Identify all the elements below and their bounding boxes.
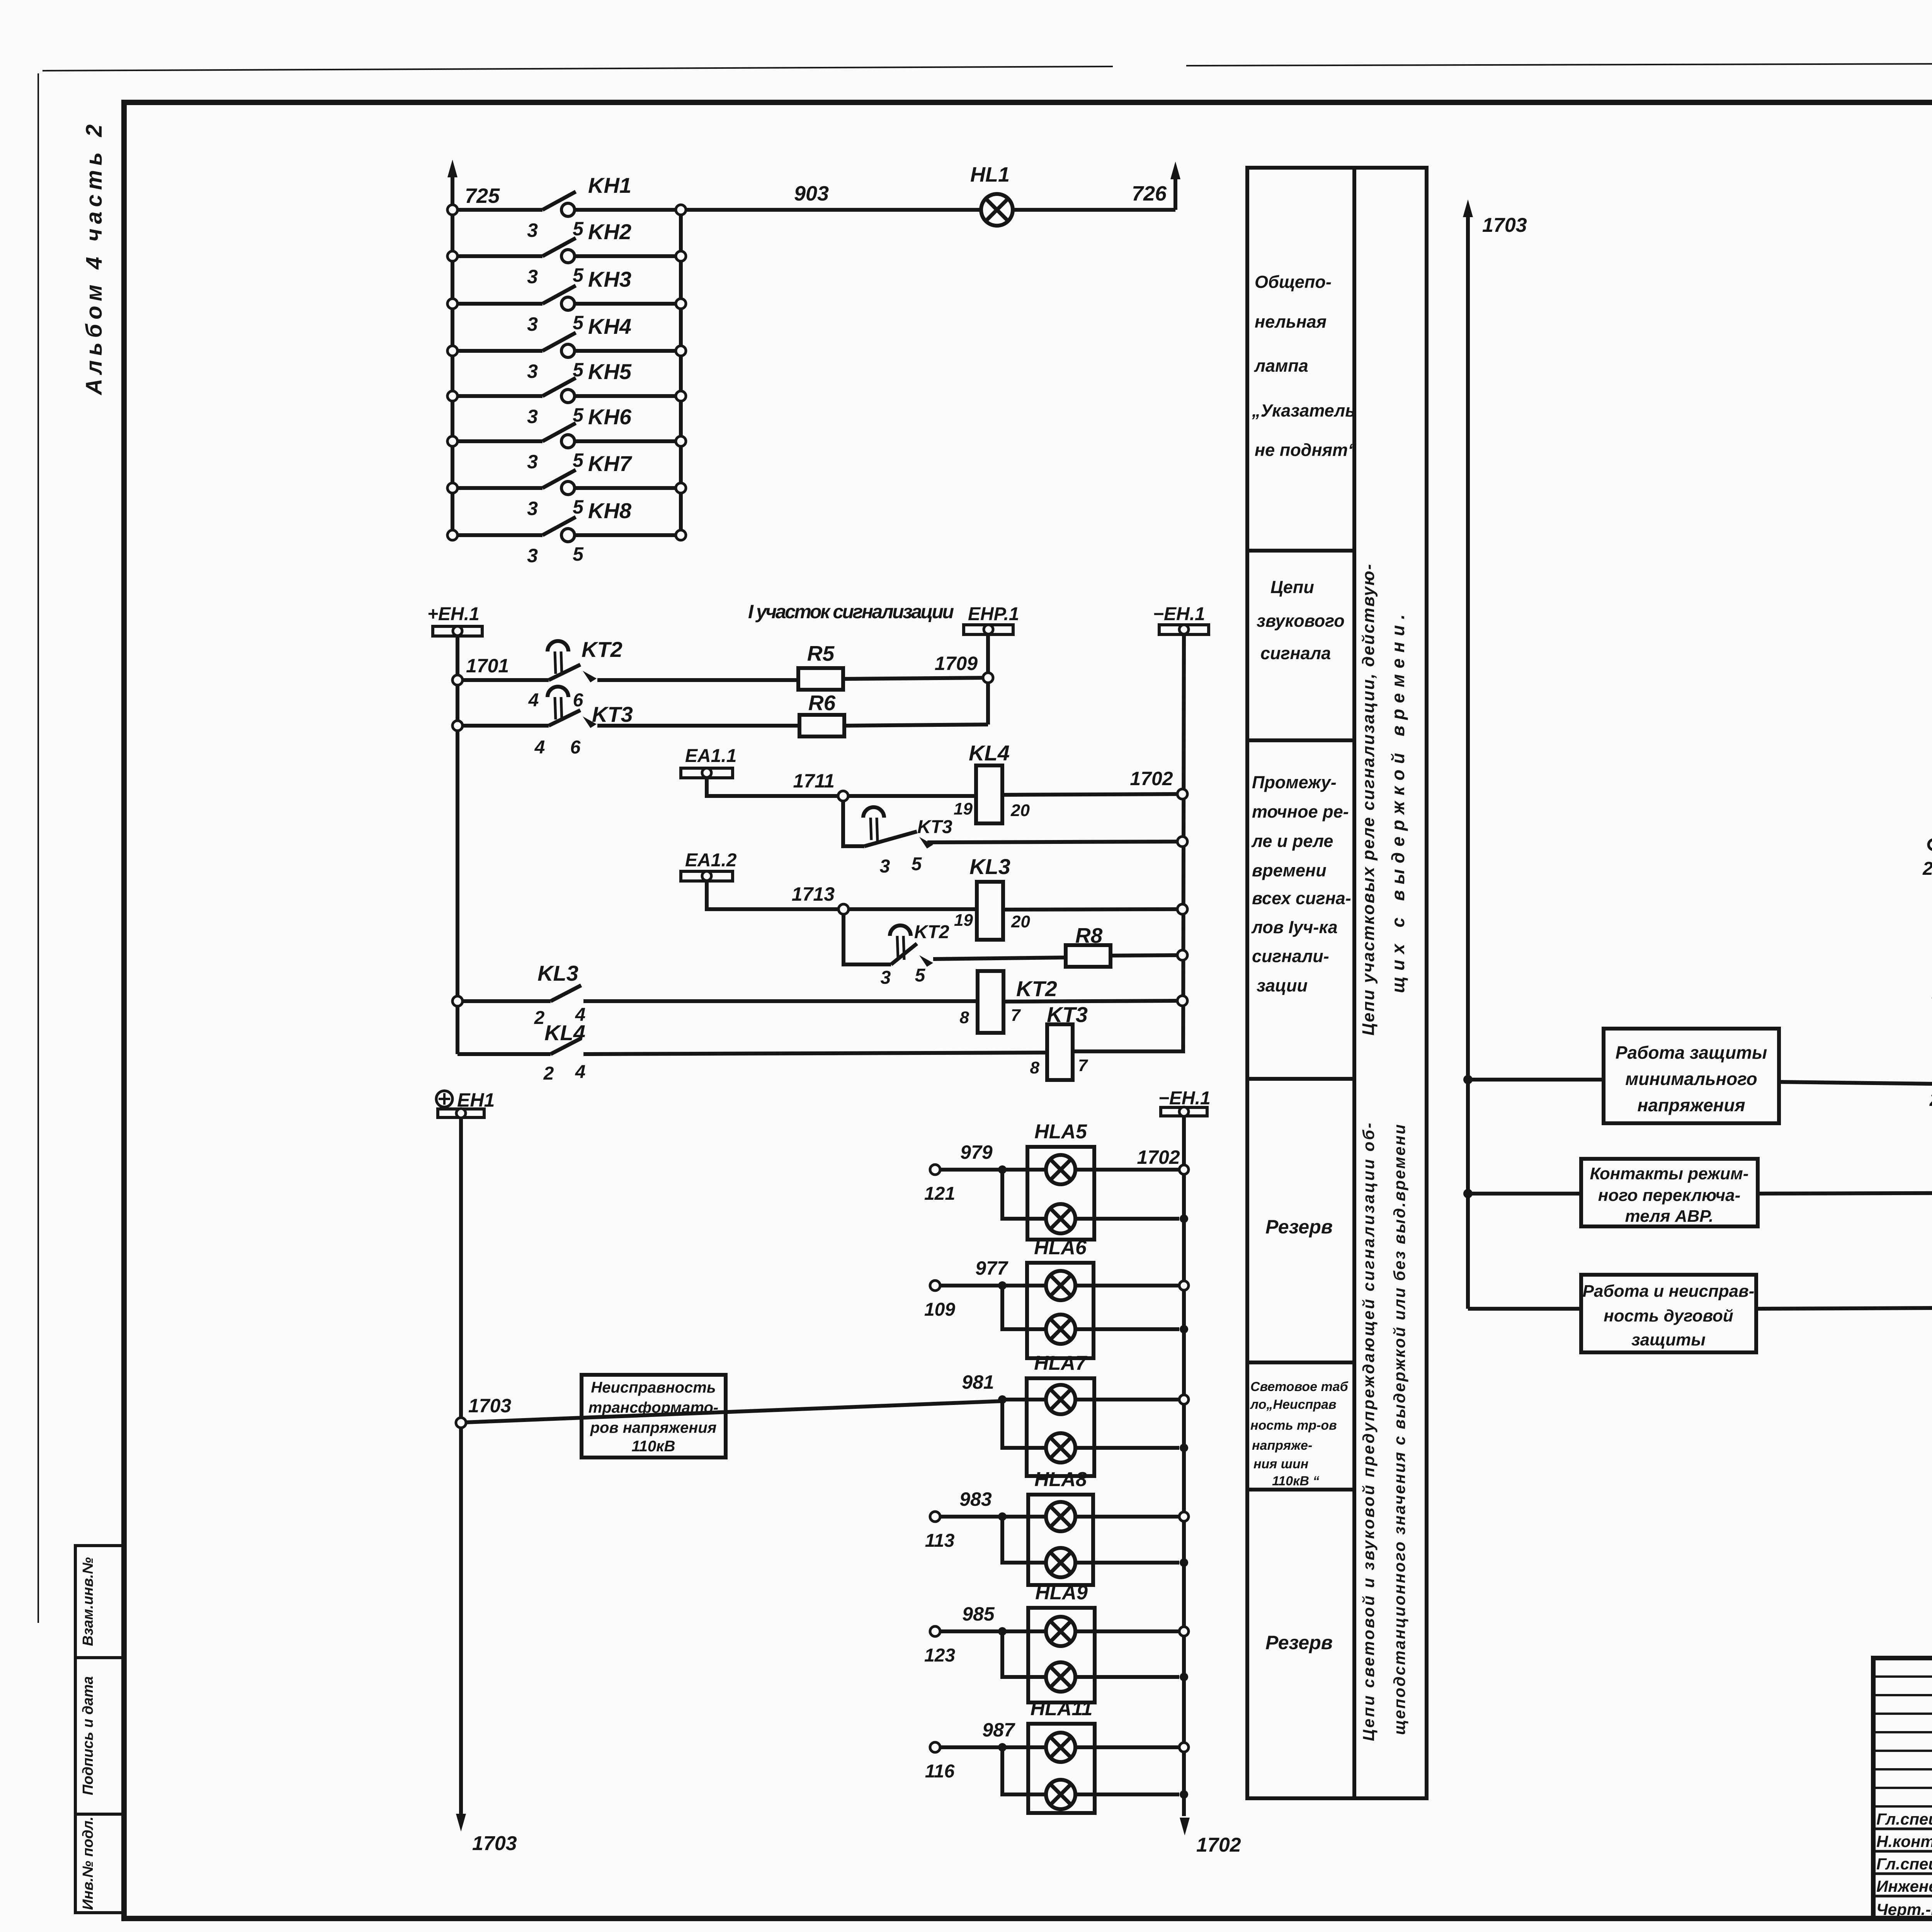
svg-text:Световое таб: Световое таб bbox=[1250, 1379, 1349, 1394]
wire: left bus of KH bank bbox=[451, 210, 454, 535]
terminal -EH.1 (lower) bbox=[1158, 1088, 1211, 1116]
svg-text:KH1: KH1 bbox=[588, 173, 631, 197]
svg-text:5: 5 bbox=[573, 218, 584, 240]
svg-text:1709: 1709 bbox=[935, 653, 978, 674]
svg-text:5: 5 bbox=[573, 449, 584, 471]
lamp panel HLA18 bbox=[1932, 921, 1932, 1033]
svg-text:ность дуговой: ность дуговой bbox=[1604, 1306, 1733, 1325]
svg-text:4: 4 bbox=[528, 690, 539, 711]
resistor R8 bbox=[1066, 923, 1111, 967]
switch KH1 bbox=[447, 173, 686, 241]
svg-text:4: 4 bbox=[575, 1062, 586, 1082]
svg-text:5: 5 bbox=[573, 312, 584, 333]
svg-text:ния шин: ния шин bbox=[1253, 1457, 1308, 1471]
lamp panel HLA11 bbox=[925, 1697, 1189, 1813]
svg-text:979: 979 bbox=[960, 1141, 993, 1163]
node 1709 bbox=[935, 653, 993, 683]
label box: Неисправность трансформаторов напряжения 110кВ bbox=[582, 1375, 726, 1458]
node on bus at KL3 row bbox=[1177, 904, 1187, 914]
svg-text:Подпись и дата: Подпись и дата bbox=[80, 1676, 96, 1795]
svg-text:7: 7 bbox=[1078, 1056, 1088, 1075]
wire KT2 coil to bus bbox=[1003, 1001, 1182, 1002]
svg-text:5: 5 bbox=[912, 854, 922, 874]
svg-text:−EH.1: −EH.1 bbox=[1158, 1088, 1211, 1109]
wire: -EH.1 bus bbox=[1073, 634, 1184, 1051]
svg-text:Контакты режим-: Контакты режим- bbox=[1590, 1164, 1749, 1183]
svg-text:20: 20 bbox=[1010, 801, 1030, 820]
svg-text:KH5: KH5 bbox=[588, 359, 632, 384]
svg-text:KT3: KT3 bbox=[1047, 1002, 1088, 1027]
node 1703 branch bbox=[456, 1395, 511, 1428]
svg-text:Работа защиты: Работа защиты bbox=[1616, 1043, 1767, 1063]
wire KL4 contact to KT3 coil bbox=[583, 1053, 1047, 1054]
svg-text:Резерв: Резерв bbox=[1265, 1632, 1333, 1653]
svg-text:не поднят“: не поднят“ bbox=[1255, 440, 1357, 460]
svg-text:Резерв: Резерв bbox=[1265, 1216, 1333, 1238]
svg-text:1703: 1703 bbox=[1482, 214, 1527, 236]
svg-text:1702: 1702 bbox=[1130, 768, 1173, 789]
sheet paper edge (thin scan lines) bbox=[38, 62, 1932, 1623]
svg-text:Инв.№ подл.: Инв.№ подл. bbox=[80, 1816, 96, 1910]
lamp panel HLA7 bbox=[962, 1352, 1189, 1476]
svg-text:HL1: HL1 bbox=[970, 163, 1010, 186]
resistor R5 bbox=[798, 641, 843, 690]
svg-text:Гл.спец.: Гл.спец. bbox=[1876, 1810, 1932, 1828]
contact KT3 (time delay) bbox=[452, 687, 633, 758]
switch KH2 bbox=[447, 219, 686, 287]
svg-text:HLA11: HLA11 bbox=[1031, 1697, 1093, 1720]
svg-text:19: 19 bbox=[954, 911, 973, 930]
svg-text:903: 903 bbox=[794, 182, 829, 205]
svg-text:110кВ: 110кВ bbox=[632, 1438, 675, 1455]
wire 726 to arrow bbox=[1013, 162, 1180, 210]
contact KT2 (time delay) bbox=[463, 637, 622, 711]
svg-text:981: 981 bbox=[962, 1371, 994, 1393]
svg-text:1711: 1711 bbox=[793, 770, 835, 792]
wire EHP.1 down bbox=[986, 634, 990, 724]
svg-text:KH6: KH6 bbox=[588, 405, 632, 429]
svg-text:1703: 1703 bbox=[468, 1395, 511, 1417]
svg-text:3: 3 bbox=[527, 266, 538, 287]
title block bbox=[1873, 1658, 1932, 1929]
wire 1701-R5 bbox=[597, 678, 799, 682]
wire: 1703 bus down bbox=[456, 1117, 517, 1855]
lamp panel HLA8 bbox=[925, 1468, 1189, 1585]
legend table (left): circuit descriptions bbox=[1247, 168, 1427, 1798]
resistor R6 bbox=[799, 691, 844, 736]
wire KL3 contact to KT2 coil bbox=[583, 999, 978, 1003]
svg-text:Черт.-кон: Черт.-кон bbox=[1876, 1900, 1932, 1918]
contact KT2 (branch of 1713) bbox=[844, 914, 949, 988]
terminal EA1.1 bbox=[681, 746, 736, 778]
svg-text:KL4: KL4 bbox=[969, 741, 1010, 765]
svg-text:KT2: KT2 bbox=[1016, 976, 1057, 1001]
svg-text:Цепи участковых реле сигнализа: Цепи участковых реле сигнализации, дейст… bbox=[1359, 564, 1378, 1036]
lamp panel HLA9 bbox=[924, 1582, 1189, 1702]
wire R5-1709 bbox=[843, 678, 988, 679]
svg-text:1701: 1701 bbox=[466, 655, 509, 677]
svg-text:Неисправность: Неисправность bbox=[591, 1379, 716, 1396]
svg-text:времени: времени bbox=[1252, 861, 1327, 880]
lamp HL1 bbox=[970, 163, 1013, 226]
svg-text:3: 3 bbox=[527, 361, 538, 382]
svg-text:KT3: KT3 bbox=[917, 817, 952, 837]
svg-text:5: 5 bbox=[915, 965, 926, 986]
svg-text:6: 6 bbox=[570, 737, 581, 758]
left margin stamp boxes (Взам.инв.№ / Подпись и дата / Инв.№ подл.) bbox=[75, 1546, 124, 1913]
svg-text:ров напряжения: ров напряжения bbox=[590, 1419, 717, 1436]
svg-text:ного переключа-: ного переключа- bbox=[1598, 1186, 1740, 1205]
wire R8 to bus bbox=[1111, 955, 1182, 956]
svg-text:123: 123 bbox=[924, 1645, 955, 1666]
terminal EA1.2 bbox=[681, 850, 737, 881]
svg-text:2: 2 bbox=[543, 1063, 554, 1084]
svg-text:5: 5 bbox=[573, 264, 584, 286]
wire KT2 branch to R8 bbox=[933, 957, 1065, 959]
svg-text:сигнали-: сигнали- bbox=[1252, 946, 1329, 966]
svg-text:HLA9: HLA9 bbox=[1035, 1582, 1088, 1604]
relay coil KL3 bbox=[954, 854, 1030, 940]
svg-text:1702: 1702 bbox=[1137, 1146, 1180, 1168]
svg-text:5: 5 bbox=[573, 496, 584, 518]
terminal ⊕EH1 bbox=[436, 1089, 495, 1118]
svg-text:минимального: минимального bbox=[1625, 1069, 1757, 1089]
svg-text:HLA5: HLA5 bbox=[1034, 1121, 1087, 1143]
svg-text:3: 3 bbox=[881, 968, 891, 988]
label box: Контакты режимного переключателя АВР bbox=[1463, 1159, 1758, 1226]
wire 903 bbox=[686, 182, 981, 210]
svg-text:20: 20 bbox=[1011, 912, 1030, 931]
svg-text:ле и реле: ле и реле bbox=[1251, 831, 1333, 851]
svg-text:3: 3 bbox=[527, 545, 538, 566]
svg-text:KL3: KL3 bbox=[969, 854, 1010, 879]
relay coil KT2 bbox=[960, 971, 1057, 1033]
node 1711 bbox=[793, 770, 848, 801]
node on bus at 1702 row bbox=[1177, 789, 1187, 799]
wire 1711-KL4 bbox=[848, 794, 975, 798]
svg-text:EA1.1: EA1.1 bbox=[685, 746, 736, 766]
svg-text:109: 109 bbox=[924, 1299, 955, 1320]
svg-text:напряже-: напряже- bbox=[1252, 1438, 1312, 1453]
svg-text:110кВ “: 110кВ “ bbox=[1272, 1474, 1319, 1488]
svg-text:116: 116 bbox=[925, 1761, 955, 1782]
svg-text:EA1.2: EA1.2 bbox=[685, 850, 737, 871]
svg-text:зации: зации bbox=[1257, 976, 1308, 995]
terminal EHP.1 bbox=[964, 604, 1019, 634]
svg-text:точное ре-: точное ре- bbox=[1252, 802, 1349, 821]
switch KH3 bbox=[447, 267, 686, 335]
wire EA1.2 to 1713 bbox=[707, 881, 838, 909]
svg-text:KL4: KL4 bbox=[544, 1020, 585, 1045]
svg-text:ность тр-ов: ность тр-ов bbox=[1250, 1418, 1337, 1433]
contact KL3 bbox=[452, 961, 585, 1028]
svg-text:3: 3 bbox=[527, 219, 538, 241]
svg-text:„Указатель: „Указатель bbox=[1252, 401, 1355, 420]
wire R6 to EHP.1 drop bbox=[844, 724, 988, 726]
svg-text:KH2: KH2 bbox=[588, 219, 631, 244]
switch KH7 bbox=[447, 451, 686, 519]
switch KH8 bbox=[447, 498, 686, 566]
svg-text:лампа: лампа bbox=[1254, 356, 1308, 376]
svg-text:HLA6: HLA6 bbox=[1034, 1236, 1087, 1259]
terminal +EH.1 bbox=[427, 604, 482, 636]
lamp panel HLA6 bbox=[924, 1236, 1189, 1358]
svg-text:EHP.1: EHP.1 bbox=[968, 604, 1019, 624]
svg-text:лов Iуч-ка: лов Iуч-ка bbox=[1251, 917, 1338, 937]
label box: Работа и неисправность дуговой защиты bbox=[1468, 1275, 1756, 1352]
wire: right bus of KH bank bbox=[679, 210, 683, 535]
svg-text:211: 211 bbox=[1929, 1090, 1932, 1110]
svg-text:HLA7: HLA7 bbox=[1034, 1352, 1087, 1374]
svg-text:Гл.спец.: Гл.спец. bbox=[1876, 1855, 1932, 1873]
label box: Работа защиты минимального напряжения bbox=[1463, 1029, 1779, 1123]
svg-text:5: 5 bbox=[573, 543, 584, 565]
switch KH5 bbox=[447, 359, 686, 427]
lamp panel HLA17 bbox=[1922, 797, 1932, 915]
svg-text:Инженер: Инженер bbox=[1876, 1877, 1932, 1895]
svg-text:Альбом 4 часть 2: Альбом 4 часть 2 bbox=[82, 124, 107, 396]
svg-text:сигнала: сигнала bbox=[1260, 643, 1331, 663]
wire: 1702 bus down bbox=[1180, 1116, 1241, 1856]
svg-text:KL3: KL3 bbox=[537, 961, 578, 985]
node 1713 bbox=[792, 883, 849, 914]
wire 999 row bbox=[1758, 1166, 1932, 1194]
svg-text:Цепи световой и звуковой преду: Цепи световой и звуковой предупреждающей… bbox=[1359, 1123, 1378, 1741]
svg-text:4: 4 bbox=[534, 737, 545, 758]
svg-text:−EH.1: −EH.1 bbox=[1153, 604, 1205, 624]
switch KH4 bbox=[447, 314, 686, 382]
svg-text:KT3: KT3 bbox=[592, 702, 633, 726]
svg-text:7: 7 bbox=[1011, 1006, 1021, 1025]
svg-text:3: 3 bbox=[527, 313, 538, 335]
svg-text:726: 726 bbox=[1132, 182, 1167, 205]
wire: +EH.1 bus bbox=[456, 636, 459, 1054]
node 1703 / right feeder arrow bbox=[1463, 199, 1527, 1309]
node 1701 bbox=[452, 655, 509, 685]
svg-text:987: 987 bbox=[982, 1719, 1015, 1741]
wire KT3 branch to bus bbox=[927, 842, 1182, 842]
svg-text:KT2: KT2 bbox=[914, 922, 949, 942]
terminal -EH.1 (upper) bbox=[1153, 604, 1209, 634]
wire 1713-KL3 bbox=[849, 907, 977, 911]
svg-text:Цепи: Цепи bbox=[1270, 577, 1314, 597]
svg-text:2: 2 bbox=[534, 1008, 545, 1028]
svg-text:KH4: KH4 bbox=[588, 314, 631, 338]
svg-text:1713: 1713 bbox=[792, 883, 835, 905]
wire KT3-R6 bbox=[597, 724, 800, 728]
node on bus at KT3 branch row bbox=[1177, 837, 1187, 847]
svg-text:HLA8: HLA8 bbox=[1034, 1468, 1087, 1491]
svg-text:725: 725 bbox=[465, 184, 500, 207]
relay coil KT3 bbox=[1030, 1002, 1088, 1080]
svg-text:R5: R5 bbox=[807, 641, 835, 665]
svg-text:Общепо-: Общепо- bbox=[1255, 272, 1332, 292]
svg-text:KH7: KH7 bbox=[588, 451, 633, 476]
svg-text:KT2: KT2 bbox=[582, 637, 622, 662]
svg-text:Н.контр.: Н.контр. bbox=[1876, 1832, 1932, 1850]
svg-text:KH3: KH3 bbox=[588, 267, 631, 291]
svg-text:983: 983 bbox=[959, 1488, 992, 1510]
lamp panel HLA5 bbox=[924, 1121, 1189, 1240]
svg-text:всех сигна-: всех сигна- bbox=[1252, 888, 1351, 908]
svg-text:1702: 1702 bbox=[1196, 1834, 1241, 1856]
svg-text:I участок сигнализации: I участок сигнализации bbox=[748, 601, 954, 622]
relay coil KL4 bbox=[954, 741, 1030, 823]
svg-text:нельная: нельная bbox=[1255, 312, 1327, 332]
wire KL3 coil to bus bbox=[1003, 909, 1182, 910]
svg-text:113: 113 bbox=[925, 1531, 955, 1551]
svg-text:985: 985 bbox=[962, 1603, 995, 1625]
svg-text:8: 8 bbox=[960, 1008, 969, 1027]
svg-text:6: 6 bbox=[573, 690, 583, 711]
svg-text:1703: 1703 bbox=[472, 1832, 517, 1855]
wire 1702 row bbox=[1002, 768, 1182, 795]
node on bus at KT2 coil row bbox=[1177, 996, 1187, 1006]
svg-text:звукового: звукового bbox=[1257, 611, 1345, 631]
svg-text:209: 209 bbox=[1922, 859, 1932, 879]
svg-text:теля АВР.: теля АВР. bbox=[1625, 1207, 1714, 1226]
wire 997 row bbox=[1779, 1053, 1932, 1110]
node on bus at R8 row bbox=[1177, 950, 1187, 960]
svg-text:защиты: защиты bbox=[1631, 1330, 1706, 1349]
svg-text:121: 121 bbox=[924, 1184, 955, 1204]
switch KH6 bbox=[447, 405, 686, 473]
node 725 / supply arrow bbox=[447, 160, 500, 210]
svg-text:3: 3 bbox=[527, 498, 538, 519]
wire 969 row bbox=[1756, 1279, 1932, 1337]
svg-text:3: 3 bbox=[880, 856, 890, 877]
svg-text:Работа и неисправ-: Работа и неисправ- bbox=[1583, 1282, 1755, 1301]
svg-text:R6: R6 bbox=[808, 691, 836, 715]
svg-text:Промежу-: Промежу- bbox=[1252, 772, 1337, 792]
svg-text:напряжения: напряжения bbox=[1637, 1095, 1745, 1115]
svg-text:KH8: KH8 bbox=[588, 498, 632, 523]
contact KL4 bbox=[457, 1020, 585, 1084]
contact KT3 (branch of 1711) bbox=[843, 801, 952, 877]
svg-text:Взам.инв.№: Взам.инв.№ bbox=[80, 1557, 96, 1646]
svg-text:R8: R8 bbox=[1075, 923, 1103, 947]
svg-text:3: 3 bbox=[527, 451, 538, 473]
svg-text:977: 977 bbox=[975, 1257, 1009, 1279]
svg-text:трансформато-: трансформато- bbox=[588, 1399, 718, 1416]
svg-text:ло„Неисправ: ло„Неисправ bbox=[1250, 1397, 1337, 1412]
svg-text:3: 3 bbox=[527, 406, 538, 427]
wire EA1.1 to 1711 bbox=[707, 777, 841, 796]
svg-text:19: 19 bbox=[954, 799, 973, 818]
svg-text:8: 8 bbox=[1030, 1058, 1040, 1077]
wire 1703 branch to HLA7 bbox=[466, 1401, 1002, 1422]
svg-text:+EH.1: +EH.1 bbox=[427, 604, 480, 624]
